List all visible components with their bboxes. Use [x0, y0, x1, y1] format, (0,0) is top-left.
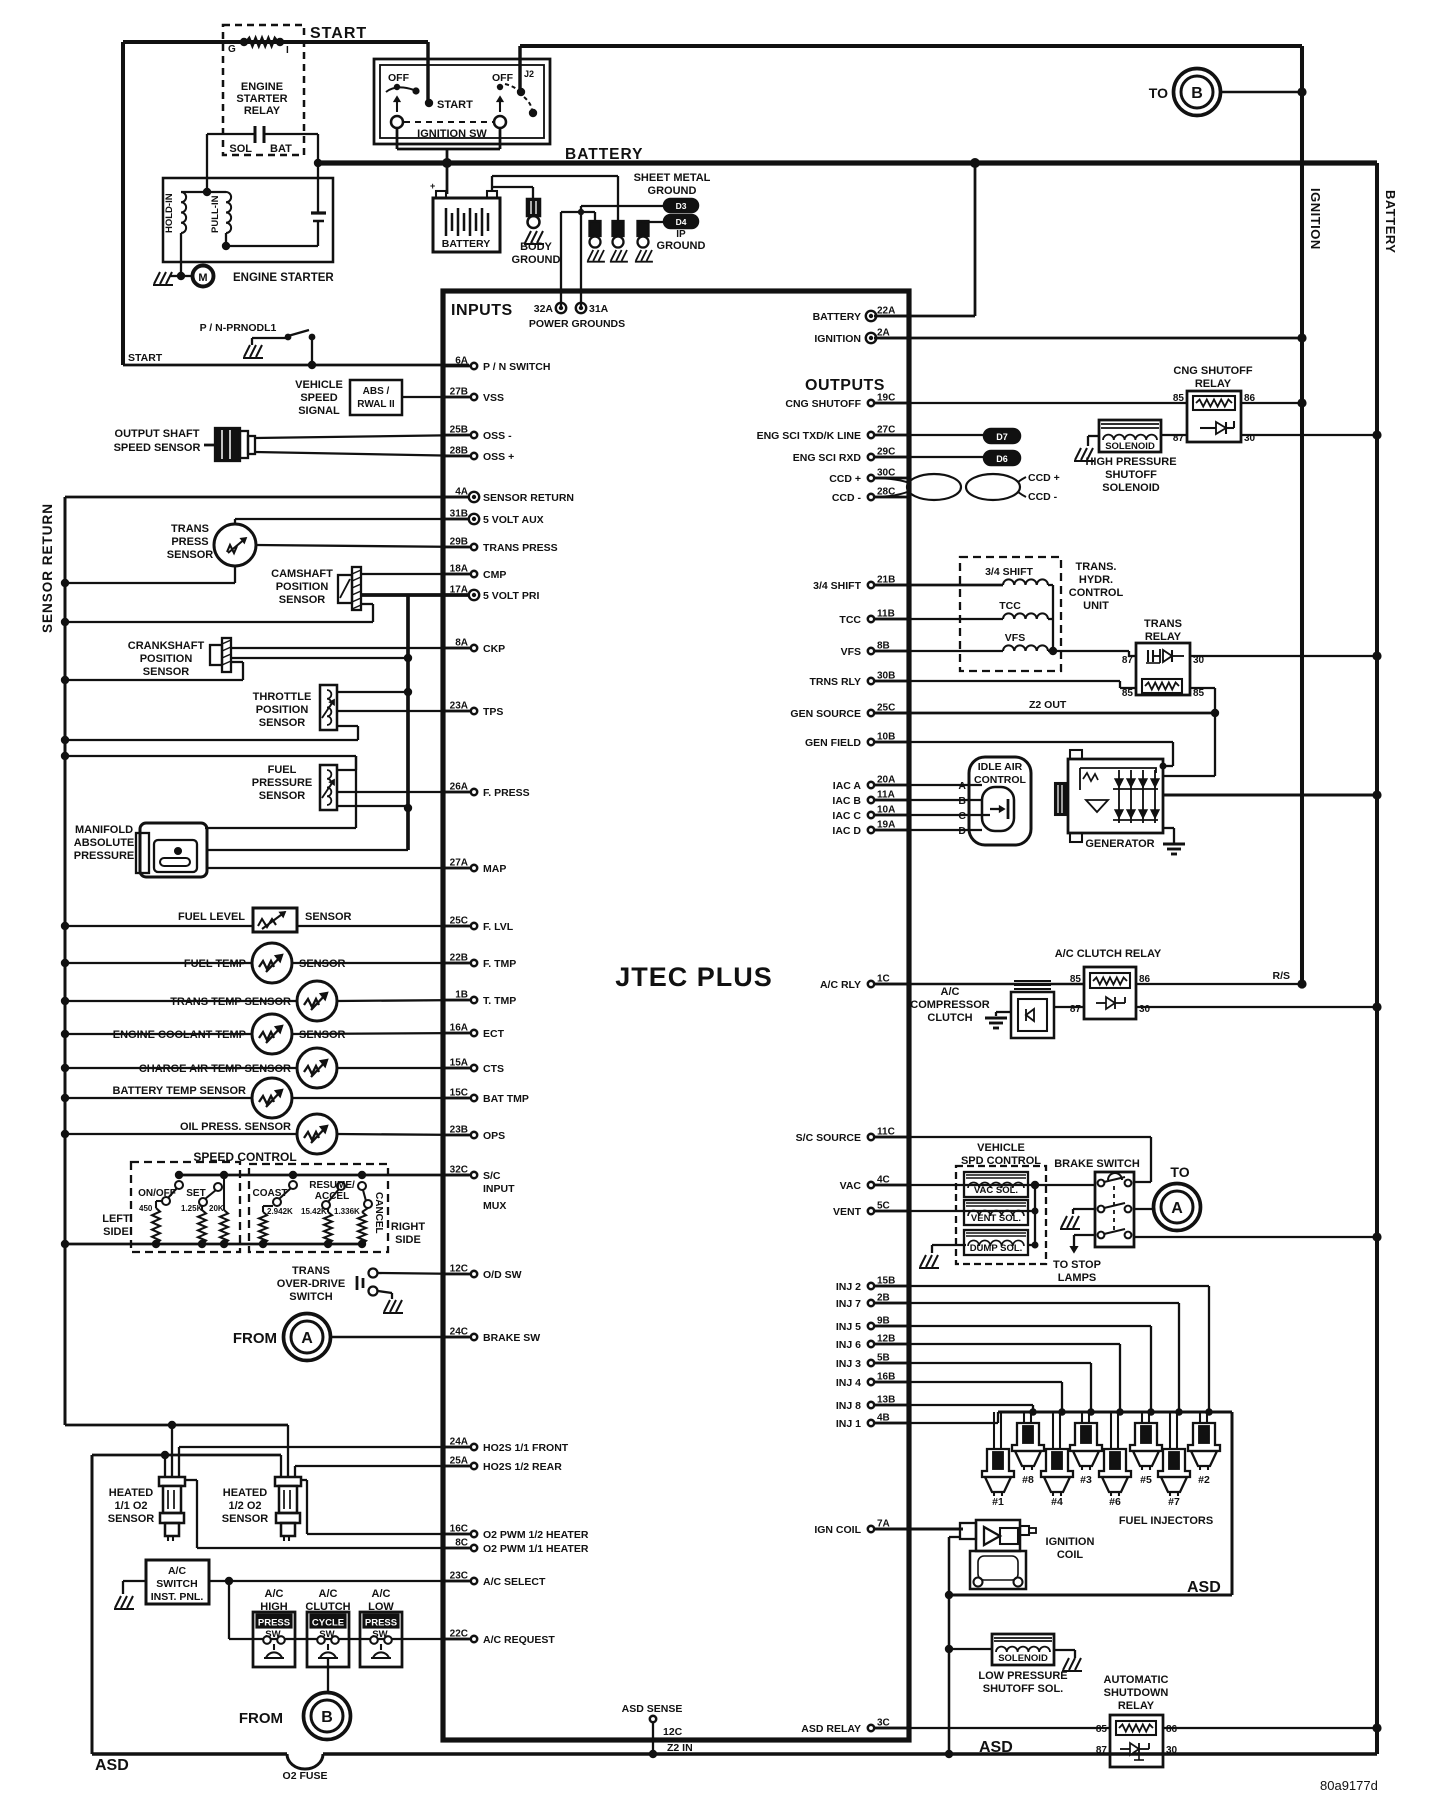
- svg-text:CYCLE: CYCLE: [312, 1618, 344, 1629]
- svg-text:SENSOR: SENSOR: [305, 911, 352, 923]
- svg-text:AUTOMATIC: AUTOMATIC: [1104, 1674, 1169, 1686]
- svg-text:TPS: TPS: [483, 706, 503, 718]
- svg-text:5C: 5C: [877, 1201, 890, 1212]
- svg-text:12B: 12B: [877, 1334, 895, 1345]
- svg-text:+: +: [430, 181, 435, 191]
- svg-text:IAC B: IAC B: [832, 795, 861, 807]
- svg-text:TRANS: TRANS: [292, 1265, 330, 1277]
- svg-text:PRESS: PRESS: [258, 1618, 290, 1629]
- svg-text:RESUME/: RESUME/: [309, 1180, 355, 1191]
- svg-text:ECT: ECT: [483, 1028, 505, 1040]
- svg-text:FROM: FROM: [233, 1330, 277, 1347]
- svg-text:BATTERY: BATTERY: [813, 311, 861, 323]
- svg-text:STARTER: STARTER: [236, 93, 287, 105]
- svg-text:TO: TO: [1149, 85, 1168, 101]
- svg-text:Z2 OUT: Z2 OUT: [1029, 699, 1067, 711]
- svg-text:INST. PNL.: INST. PNL.: [151, 1591, 204, 1603]
- svg-text:PULL-IN: PULL-IN: [210, 195, 221, 233]
- svg-text:IGNITION: IGNITION: [1308, 188, 1323, 250]
- svg-text:ASD: ASD: [95, 1757, 129, 1774]
- svg-text:FUEL LEVEL: FUEL LEVEL: [178, 911, 245, 923]
- svg-text:IDLE AIR: IDLE AIR: [978, 761, 1023, 773]
- svg-text:BATTERY: BATTERY: [1383, 190, 1398, 253]
- svg-text:CCD +: CCD +: [1028, 472, 1060, 484]
- svg-text:INJ 1: INJ 1: [836, 1418, 861, 1430]
- svg-text:2A: 2A: [877, 328, 890, 339]
- svg-text:IAC C: IAC C: [832, 810, 861, 822]
- svg-text:O/D SW: O/D SW: [483, 1269, 522, 1281]
- svg-text:VSS: VSS: [483, 392, 504, 404]
- svg-text:#8: #8: [1022, 1474, 1034, 1486]
- svg-text:22C: 22C: [450, 1629, 468, 1640]
- svg-text:SET: SET: [186, 1188, 205, 1199]
- svg-text:29B: 29B: [450, 537, 468, 548]
- svg-text:SENSOR: SENSOR: [167, 549, 214, 561]
- svg-text:I: I: [286, 45, 289, 56]
- svg-text:IGNITION: IGNITION: [1046, 1536, 1095, 1548]
- svg-text:450: 450: [139, 1204, 153, 1213]
- svg-text:HIGH: HIGH: [260, 1601, 288, 1613]
- svg-text:10A: 10A: [877, 805, 895, 816]
- svg-text:FUEL INJECTORS: FUEL INJECTORS: [1119, 1515, 1213, 1527]
- svg-text:22B: 22B: [450, 953, 468, 964]
- svg-text:16B: 16B: [877, 1372, 895, 1383]
- svg-text:SOLENOID: SOLENOID: [998, 1653, 1048, 1664]
- svg-text:30: 30: [1166, 1745, 1178, 1756]
- svg-text:#3: #3: [1080, 1474, 1092, 1486]
- svg-text:A/C: A/C: [319, 1588, 338, 1600]
- svg-text:SOL: SOL: [229, 143, 252, 155]
- svg-text:22A: 22A: [877, 306, 895, 317]
- svg-text:CNG SHUTOFF: CNG SHUTOFF: [1173, 365, 1253, 377]
- svg-text:OPS: OPS: [483, 1130, 505, 1142]
- svg-text:IGN COIL: IGN COIL: [814, 1524, 861, 1536]
- svg-text:SENSOR: SENSOR: [299, 958, 346, 970]
- svg-text:TO: TO: [1170, 1164, 1189, 1180]
- svg-text:BATTERY: BATTERY: [442, 238, 490, 250]
- svg-text:SIDE: SIDE: [103, 1226, 129, 1238]
- svg-text:28C: 28C: [877, 487, 895, 498]
- svg-text:#6: #6: [1109, 1496, 1121, 1508]
- svg-text:O2 FUSE: O2 FUSE: [283, 1770, 328, 1782]
- svg-text:CTS: CTS: [483, 1063, 504, 1075]
- svg-text:TRANS PRESS: TRANS PRESS: [483, 542, 558, 554]
- svg-text:DUMP SOL.: DUMP SOL.: [970, 1243, 1023, 1254]
- svg-text:11A: 11A: [877, 790, 895, 801]
- svg-text:CHARGE AIR TEMP SENSOR: CHARGE AIR TEMP SENSOR: [139, 1063, 291, 1075]
- svg-text:GROUND: GROUND: [657, 240, 706, 252]
- svg-text:R/S: R/S: [1272, 970, 1290, 982]
- svg-text:11C: 11C: [877, 1127, 895, 1138]
- svg-text:CCD -: CCD -: [1028, 491, 1058, 503]
- svg-text:IGNITION: IGNITION: [814, 333, 861, 345]
- svg-text:SOLENOID: SOLENOID: [1102, 482, 1160, 494]
- svg-text:4A: 4A: [455, 487, 468, 498]
- svg-text:15B: 15B: [877, 1276, 895, 1287]
- svg-text:4C: 4C: [877, 1175, 890, 1186]
- svg-text:B: B: [1191, 85, 1203, 102]
- svg-text:SENSOR RETURN: SENSOR RETURN: [483, 492, 574, 504]
- svg-text:HO2S 1/2 REAR: HO2S 1/2 REAR: [483, 1461, 562, 1473]
- svg-text:GENERATOR: GENERATOR: [1085, 838, 1154, 850]
- svg-text:IAC D: IAC D: [832, 825, 861, 837]
- svg-text:A/C: A/C: [265, 1588, 284, 1600]
- svg-text:16A: 16A: [450, 1023, 468, 1034]
- svg-text:85: 85: [1122, 688, 1134, 699]
- svg-text:IGNITION SW: IGNITION SW: [417, 128, 487, 140]
- svg-text:LOW PRESSURE: LOW PRESSURE: [978, 1670, 1067, 1682]
- svg-text:85: 85: [1096, 1724, 1108, 1735]
- svg-text:SPEED SENSOR: SPEED SENSOR: [114, 442, 201, 454]
- svg-text:ENG SCI TXD/K LINE: ENG SCI TXD/K LINE: [757, 430, 861, 442]
- svg-text:MANIFOLD: MANIFOLD: [75, 824, 133, 836]
- svg-text:VFS: VFS: [841, 646, 861, 658]
- svg-text:LAMPS: LAMPS: [1058, 1272, 1097, 1284]
- svg-text:17A: 17A: [450, 585, 468, 596]
- svg-text:OUTPUT SHAFT: OUTPUT SHAFT: [115, 428, 200, 440]
- svg-text:MAP: MAP: [483, 863, 506, 875]
- svg-text:RELAY: RELAY: [1145, 631, 1182, 643]
- svg-text:3C: 3C: [877, 1718, 890, 1729]
- svg-text:31A: 31A: [589, 303, 609, 315]
- svg-text:GROUND: GROUND: [512, 254, 561, 266]
- svg-text:OSS -: OSS -: [483, 430, 512, 442]
- svg-text:SPEED CONTROL: SPEED CONTROL: [193, 1150, 296, 1164]
- svg-text:ASD: ASD: [979, 1739, 1013, 1756]
- svg-text:25C: 25C: [450, 916, 468, 927]
- svg-text:20A: 20A: [877, 775, 895, 786]
- svg-text:TCC: TCC: [839, 614, 861, 626]
- svg-text:1/1 O2: 1/1 O2: [114, 1500, 147, 1512]
- svg-text:29C: 29C: [877, 447, 895, 458]
- svg-text:JTEC PLUS: JTEC PLUS: [615, 962, 773, 992]
- svg-text:CMP: CMP: [483, 569, 506, 581]
- svg-text:D7: D7: [996, 432, 1008, 442]
- svg-text:INJ 3: INJ 3: [836, 1358, 861, 1370]
- svg-text:A: A: [301, 1330, 313, 1347]
- svg-text:87: 87: [1096, 1745, 1108, 1756]
- svg-text:86: 86: [1166, 1724, 1178, 1735]
- svg-text:FUEL TEMP: FUEL TEMP: [184, 958, 246, 970]
- svg-text:5 VOLT AUX: 5 VOLT AUX: [483, 514, 544, 526]
- svg-text:SIGNAL: SIGNAL: [298, 405, 340, 417]
- svg-text:F. TMP: F. TMP: [483, 958, 516, 970]
- svg-text:30C: 30C: [877, 468, 895, 479]
- svg-text:3/4 SHIFT: 3/4 SHIFT: [985, 566, 1033, 578]
- svg-text:CNG SHUTOFF: CNG SHUTOFF: [785, 398, 861, 410]
- svg-text:CONTROL: CONTROL: [1069, 587, 1124, 599]
- svg-text:24C: 24C: [450, 1327, 468, 1338]
- svg-text:ENGINE: ENGINE: [241, 81, 283, 93]
- svg-text:A/C: A/C: [168, 1565, 187, 1577]
- svg-text:F. LVL: F. LVL: [483, 921, 514, 933]
- svg-text:HO2S 1/1 FRONT: HO2S 1/1 FRONT: [483, 1442, 569, 1454]
- svg-text:OUTPUTS: OUTPUTS: [805, 377, 885, 394]
- svg-text:12C: 12C: [663, 1726, 683, 1738]
- svg-text:BAT: BAT: [270, 143, 292, 155]
- svg-text:BATTERY TEMP SENSOR: BATTERY TEMP SENSOR: [113, 1085, 247, 1097]
- svg-text:VAC: VAC: [840, 1180, 862, 1192]
- svg-text:RELAY: RELAY: [1118, 1700, 1155, 1712]
- svg-text:VAC SOL.: VAC SOL.: [974, 1185, 1018, 1196]
- svg-text:OSS +: OSS +: [483, 451, 514, 463]
- svg-text:D6: D6: [996, 454, 1008, 464]
- svg-text:COMPRESSOR: COMPRESSOR: [910, 999, 990, 1011]
- svg-text:SENSOR: SENSOR: [299, 1029, 346, 1041]
- svg-text:80a9177d: 80a9177d: [1320, 1778, 1378, 1793]
- svg-text:16C: 16C: [450, 1524, 468, 1535]
- svg-text:A/C SELECT: A/C SELECT: [483, 1576, 546, 1588]
- svg-text:A/C CLUTCH RELAY: A/C CLUTCH RELAY: [1055, 948, 1162, 960]
- svg-text:5B: 5B: [877, 1353, 890, 1364]
- svg-text:A/C: A/C: [941, 986, 960, 998]
- svg-text:ASD RELAY: ASD RELAY: [801, 1723, 861, 1735]
- svg-text:ACCEL: ACCEL: [315, 1191, 349, 1202]
- svg-text:T. TMP: T. TMP: [483, 995, 516, 1007]
- svg-text:INJ 4: INJ 4: [836, 1377, 861, 1389]
- svg-text:23A: 23A: [450, 701, 468, 712]
- svg-text:SENSOR: SENSOR: [222, 1513, 269, 1525]
- svg-text:TCC: TCC: [999, 600, 1021, 612]
- svg-text:21B: 21B: [877, 575, 895, 586]
- svg-text:UNIT: UNIT: [1083, 600, 1109, 612]
- svg-text:SENSOR: SENSOR: [259, 717, 306, 729]
- svg-text:A/C REQUEST: A/C REQUEST: [483, 1634, 555, 1646]
- svg-text:RIGHT: RIGHT: [391, 1221, 426, 1233]
- svg-text:4B: 4B: [877, 1413, 890, 1424]
- svg-text:TRANS TEMP SENSOR: TRANS TEMP SENSOR: [170, 996, 291, 1008]
- svg-text:MUX: MUX: [483, 1200, 506, 1212]
- svg-text:TRANS.: TRANS.: [1076, 561, 1117, 573]
- svg-text:SENSOR: SENSOR: [279, 594, 326, 606]
- svg-text:#1: #1: [992, 1496, 1004, 1508]
- svg-text:CLUTCH: CLUTCH: [305, 1601, 350, 1613]
- svg-text:G: G: [228, 44, 236, 55]
- svg-text:INJ 6: INJ 6: [836, 1339, 861, 1351]
- svg-text:19A: 19A: [877, 820, 895, 831]
- svg-text:THROTTLE: THROTTLE: [253, 691, 312, 703]
- svg-text:CAMSHAFT: CAMSHAFT: [271, 568, 333, 580]
- svg-text:30: 30: [1139, 1004, 1151, 1015]
- svg-text:PRESSURE: PRESSURE: [74, 850, 135, 862]
- svg-text:ABS /: ABS /: [363, 386, 390, 397]
- svg-text:PRESS: PRESS: [171, 536, 208, 548]
- svg-text:GROUND: GROUND: [648, 185, 697, 197]
- svg-text:SHUTOFF SOL.: SHUTOFF SOL.: [983, 1683, 1063, 1695]
- svg-text:CCD +: CCD +: [829, 473, 861, 485]
- svg-text:TRNS RLY: TRNS RLY: [809, 676, 861, 688]
- svg-text:TRANS: TRANS: [1144, 618, 1182, 630]
- svg-text:INJ 7: INJ 7: [836, 1298, 861, 1310]
- svg-text:COIL: COIL: [1057, 1549, 1084, 1561]
- svg-text:TO STOP: TO STOP: [1053, 1259, 1101, 1271]
- svg-text:SENSOR RETURN: SENSOR RETURN: [40, 503, 55, 633]
- svg-text:POSITION: POSITION: [140, 653, 193, 665]
- svg-text:BRAKE SW: BRAKE SW: [483, 1332, 540, 1344]
- svg-text:B: B: [321, 1709, 333, 1726]
- svg-text:SPEED: SPEED: [300, 392, 337, 404]
- svg-text:1/2 O2: 1/2 O2: [228, 1500, 261, 1512]
- svg-text:OVER-DRIVE: OVER-DRIVE: [277, 1278, 345, 1290]
- svg-text:INPUTS: INPUTS: [451, 302, 513, 319]
- svg-text:23B: 23B: [450, 1125, 468, 1136]
- svg-text:O2 PWM 1/1 HEATER: O2 PWM 1/1 HEATER: [483, 1543, 589, 1555]
- svg-text:2.942K: 2.942K: [267, 1207, 293, 1216]
- svg-text:9B: 9B: [877, 1316, 890, 1327]
- svg-text:LOW: LOW: [368, 1601, 394, 1613]
- svg-text:32A: 32A: [534, 303, 554, 315]
- svg-text:7A: 7A: [877, 1519, 890, 1530]
- svg-text:FUEL: FUEL: [268, 764, 297, 776]
- svg-text:25B: 25B: [450, 425, 468, 436]
- svg-text:S/C SOURCE: S/C SOURCE: [796, 1132, 861, 1144]
- svg-text:COAST: COAST: [253, 1188, 288, 1199]
- svg-text:CCD -: CCD -: [832, 492, 862, 504]
- svg-text:OFF: OFF: [388, 72, 410, 84]
- svg-text:GEN FIELD: GEN FIELD: [805, 737, 861, 749]
- svg-text:SOLENOID: SOLENOID: [1105, 441, 1155, 452]
- svg-text:D3: D3: [676, 201, 687, 211]
- svg-text:START: START: [310, 25, 367, 42]
- svg-text:20K: 20K: [209, 1204, 224, 1213]
- svg-text:87: 87: [1122, 655, 1134, 666]
- svg-text:LEFT: LEFT: [102, 1213, 130, 1225]
- svg-text:SHUTDOWN: SHUTDOWN: [1104, 1687, 1169, 1699]
- svg-text:25C: 25C: [877, 703, 895, 714]
- svg-text:3/4 SHIFT: 3/4 SHIFT: [813, 580, 861, 592]
- svg-text:START: START: [128, 352, 163, 364]
- svg-text:F. PRESS: F. PRESS: [483, 787, 530, 799]
- svg-text:27C: 27C: [877, 425, 895, 436]
- svg-text:CANCEL: CANCEL: [373, 1192, 384, 1234]
- svg-text:CKP: CKP: [483, 643, 505, 655]
- svg-text:23C: 23C: [450, 1571, 468, 1582]
- svg-text:SENSOR: SENSOR: [143, 666, 190, 678]
- svg-text:ASD: ASD: [1187, 1579, 1221, 1596]
- svg-text:POSITION: POSITION: [256, 704, 309, 716]
- svg-text:10B: 10B: [877, 732, 895, 743]
- svg-text:11B: 11B: [877, 609, 895, 620]
- svg-text:#2: #2: [1198, 1474, 1210, 1486]
- svg-text:SWITCH: SWITCH: [289, 1291, 332, 1303]
- svg-text:POWER GROUNDS: POWER GROUNDS: [529, 318, 625, 330]
- svg-text:RELAY: RELAY: [244, 105, 281, 117]
- svg-text:HIGH PRESSURE: HIGH PRESSURE: [1085, 456, 1176, 468]
- svg-text:85: 85: [1193, 688, 1205, 699]
- svg-text:TRANS: TRANS: [171, 523, 209, 535]
- svg-text:VFS: VFS: [1005, 632, 1025, 644]
- svg-text:IP: IP: [676, 229, 686, 240]
- svg-text:25A: 25A: [450, 1456, 468, 1467]
- svg-text:ENGINE STARTER: ENGINE STARTER: [233, 272, 334, 284]
- svg-text:SHEET METAL: SHEET METAL: [634, 172, 711, 184]
- svg-text:#7: #7: [1168, 1496, 1180, 1508]
- svg-text:BAT TMP: BAT TMP: [483, 1093, 529, 1105]
- svg-text:1.25K: 1.25K: [181, 1204, 203, 1213]
- svg-text:A: A: [1171, 1200, 1183, 1217]
- svg-text:INJ 2: INJ 2: [836, 1281, 861, 1293]
- svg-text:CLUTCH: CLUTCH: [927, 1012, 972, 1024]
- svg-text:26A: 26A: [450, 782, 468, 793]
- svg-text:6A: 6A: [455, 356, 468, 367]
- svg-text:ASD SENSE: ASD SENSE: [622, 1703, 683, 1715]
- svg-text:15.42K: 15.42K: [301, 1207, 327, 1216]
- svg-text:27A: 27A: [450, 858, 468, 869]
- svg-text:P / N-PRNODL1: P / N-PRNODL1: [200, 322, 277, 334]
- svg-text:VENT SOL.: VENT SOL.: [971, 1213, 1021, 1224]
- svg-text:13B: 13B: [877, 1395, 895, 1406]
- svg-text:2B: 2B: [877, 1293, 890, 1304]
- svg-text:30B: 30B: [877, 671, 895, 682]
- svg-text:S/C: S/C: [483, 1170, 501, 1182]
- svg-text:8A: 8A: [455, 638, 468, 649]
- svg-text:27B: 27B: [450, 387, 468, 398]
- svg-text:CRANKSHAFT: CRANKSHAFT: [128, 640, 205, 652]
- svg-text:1.336K: 1.336K: [334, 1207, 360, 1216]
- svg-text:IAC A: IAC A: [833, 780, 862, 792]
- svg-text:18A: 18A: [450, 564, 468, 575]
- svg-text:O2 PWM 1/2 HEATER: O2 PWM 1/2 HEATER: [483, 1529, 589, 1541]
- svg-text:24A: 24A: [450, 1437, 468, 1448]
- svg-text:P / N SWITCH: P / N SWITCH: [483, 361, 550, 373]
- svg-text:HOLD-IN: HOLD-IN: [164, 193, 175, 233]
- svg-text:VENT: VENT: [833, 1206, 862, 1218]
- svg-text:#5: #5: [1140, 1474, 1152, 1486]
- svg-text:ABSOLUTE: ABSOLUTE: [74, 837, 135, 849]
- svg-text:1B: 1B: [455, 990, 468, 1001]
- svg-text:#4: #4: [1051, 1496, 1063, 1508]
- svg-text:VEHICLE: VEHICLE: [977, 1142, 1025, 1154]
- svg-text:15A: 15A: [450, 1058, 468, 1069]
- svg-text:8B: 8B: [877, 641, 890, 652]
- svg-text:M: M: [198, 272, 207, 284]
- svg-text:HEATED: HEATED: [223, 1487, 267, 1499]
- svg-text:HYDR.: HYDR.: [1079, 574, 1113, 586]
- svg-text:OIL PRESS. SENSOR: OIL PRESS. SENSOR: [180, 1121, 291, 1133]
- svg-text:OFF: OFF: [492, 72, 514, 84]
- svg-text:POSITION: POSITION: [276, 581, 329, 593]
- svg-text:ENGINE COOLANT TEMP: ENGINE COOLANT TEMP: [113, 1029, 246, 1041]
- svg-text:12C: 12C: [450, 1264, 468, 1275]
- svg-text:START: START: [437, 99, 473, 111]
- svg-text:ENG SCI RXD: ENG SCI RXD: [793, 452, 862, 464]
- svg-text:A/C RLY: A/C RLY: [820, 979, 861, 991]
- svg-text:Z2 IN: Z2 IN: [667, 1742, 693, 1754]
- svg-text:BATTERY: BATTERY: [565, 146, 643, 163]
- svg-text:32C: 32C: [450, 1165, 468, 1176]
- svg-text:31B: 31B: [450, 509, 468, 520]
- svg-text:D4: D4: [676, 217, 687, 227]
- svg-text:PRESS: PRESS: [365, 1618, 397, 1629]
- svg-text:GEN SOURCE: GEN SOURCE: [790, 708, 861, 720]
- svg-text:ON/OFF: ON/OFF: [138, 1188, 176, 1199]
- svg-text:19C: 19C: [877, 393, 895, 404]
- svg-text:1C: 1C: [877, 974, 890, 985]
- svg-text:15C: 15C: [450, 1088, 468, 1099]
- svg-text:INJ 5: INJ 5: [836, 1321, 861, 1333]
- svg-text:SENSOR: SENSOR: [108, 1513, 155, 1525]
- svg-text:8C: 8C: [455, 1538, 468, 1549]
- svg-text:5 VOLT PRI: 5 VOLT PRI: [483, 590, 539, 602]
- svg-text:SHUTOFF: SHUTOFF: [1105, 469, 1157, 481]
- svg-text:87: 87: [1070, 1004, 1082, 1015]
- svg-text:SWITCH: SWITCH: [156, 1578, 197, 1590]
- svg-text:INPUT: INPUT: [483, 1183, 515, 1195]
- svg-text:A/C: A/C: [372, 1588, 391, 1600]
- svg-text:J2: J2: [524, 69, 534, 79]
- svg-text:SIDE: SIDE: [395, 1234, 421, 1246]
- svg-text:HEATED: HEATED: [109, 1487, 153, 1499]
